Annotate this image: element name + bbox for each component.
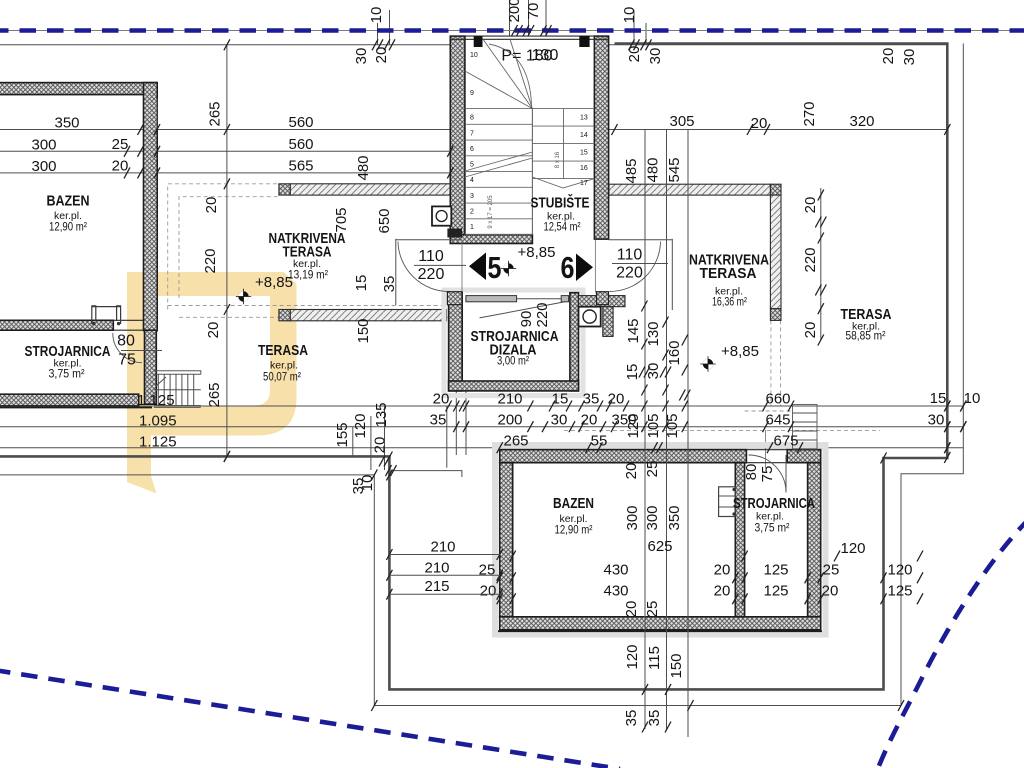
svg-text:25: 25 xyxy=(112,136,129,153)
svg-text:20: 20 xyxy=(623,601,640,618)
svg-text:1.125: 1.125 xyxy=(139,434,177,451)
svg-text:150: 150 xyxy=(355,318,372,343)
svg-text:350: 350 xyxy=(666,505,683,530)
svg-text:265: 265 xyxy=(206,382,223,407)
svg-text:125: 125 xyxy=(763,562,788,579)
svg-text:35: 35 xyxy=(583,391,600,408)
svg-text:3,75 m²: 3,75 m² xyxy=(755,521,790,535)
svg-text:75: 75 xyxy=(118,352,136,369)
svg-text:1.095: 1.095 xyxy=(139,413,177,430)
property boundary blue dashed bottom-left diagonal xyxy=(0,670,620,768)
bottom pool building xyxy=(495,445,826,635)
svg-text:210: 210 xyxy=(424,559,449,576)
svg-text:TERASA: TERASA xyxy=(258,343,308,359)
svg-text:155: 155 xyxy=(334,422,351,447)
svg-text:430: 430 xyxy=(603,583,628,600)
svg-text:BAZEN: BAZEN xyxy=(47,194,90,210)
svg-text:20: 20 xyxy=(205,322,222,339)
svg-text:16,36 m²: 16,36 m² xyxy=(712,295,747,309)
svg-text:6: 6 xyxy=(561,250,575,285)
svg-text:80: 80 xyxy=(743,464,760,481)
svg-text:30: 30 xyxy=(647,48,664,65)
dimension ticks xyxy=(138,124,144,135)
strojarnica door arc (left building) xyxy=(113,333,142,363)
svg-text:20: 20 xyxy=(372,437,389,454)
svg-text:13: 13 xyxy=(580,115,588,122)
svg-text:675: 675 xyxy=(773,433,798,450)
svg-text:9: 9 xyxy=(470,90,474,97)
svg-text:4: 4 xyxy=(470,177,474,184)
svg-text:35: 35 xyxy=(623,710,640,727)
svg-text:110: 110 xyxy=(617,247,643,264)
svg-text:220: 220 xyxy=(418,266,445,283)
svg-text:210: 210 xyxy=(497,391,522,408)
svg-text:215: 215 xyxy=(424,578,449,595)
dashed hidden edges: covered terrace left xyxy=(168,184,279,310)
svg-text:145: 145 xyxy=(625,318,642,343)
svg-text:15: 15 xyxy=(353,275,370,292)
stairwell walls xyxy=(450,36,465,239)
svg-text:3: 3 xyxy=(470,193,474,200)
svg-text:220: 220 xyxy=(616,265,643,282)
svg-text:+8,85: +8,85 xyxy=(255,274,293,291)
svg-text:50,07 m²: 50,07 m² xyxy=(263,370,301,384)
svg-text:13,19 m²: 13,19 m² xyxy=(288,268,328,282)
svg-text:30: 30 xyxy=(353,48,370,65)
svg-text:70: 70 xyxy=(525,3,542,20)
svg-text:200: 200 xyxy=(506,0,523,23)
svg-text:2: 2 xyxy=(470,209,474,216)
svg-text:20: 20 xyxy=(203,197,220,214)
svg-text:15: 15 xyxy=(624,364,641,381)
svg-text:16: 16 xyxy=(580,165,588,172)
svg-text:200: 200 xyxy=(497,412,522,429)
svg-text:105: 105 xyxy=(645,413,662,438)
svg-text:12,54 m²: 12,54 m² xyxy=(544,220,581,234)
svg-text:300: 300 xyxy=(31,137,56,154)
svg-text:15: 15 xyxy=(580,150,588,157)
exterior steps symbol right of 645 xyxy=(793,405,818,450)
benchmark symbols xyxy=(236,289,251,304)
svg-text:1.125: 1.125 xyxy=(137,392,175,409)
svg-text:6: 6 xyxy=(470,146,474,153)
svg-text:10: 10 xyxy=(964,390,981,407)
svg-text:1: 1 xyxy=(470,224,474,231)
svg-text:485: 485 xyxy=(623,158,640,183)
svg-text:20: 20 xyxy=(581,412,598,429)
svg-text:10: 10 xyxy=(470,52,478,59)
svg-text:650: 650 xyxy=(376,208,393,233)
svg-text:20: 20 xyxy=(822,583,839,600)
svg-text:120: 120 xyxy=(352,413,369,438)
svg-text:35: 35 xyxy=(430,412,447,429)
svg-text:300: 300 xyxy=(31,158,56,175)
svg-text:660: 660 xyxy=(765,391,790,408)
small stair left (strojarnica) xyxy=(154,371,201,408)
svg-text:20: 20 xyxy=(802,197,819,214)
svg-text:TERASA: TERASA xyxy=(700,266,757,282)
svg-text:10: 10 xyxy=(621,7,638,24)
svg-text:210: 210 xyxy=(430,539,455,556)
svg-text:20: 20 xyxy=(433,391,450,408)
svg-text:3,00 m²: 3,00 m² xyxy=(497,354,529,368)
svg-text:110: 110 xyxy=(418,248,444,265)
svg-text:+8,85: +8,85 xyxy=(721,343,759,360)
elevator machine room (strojarnica dizala) xyxy=(444,290,583,396)
svg-text:5: 5 xyxy=(488,250,502,285)
square column left of stairwell xyxy=(432,206,451,225)
svg-text:STUBIŠTE: STUBIŠTE xyxy=(531,194,590,212)
svg-text:25: 25 xyxy=(644,461,661,478)
dimension lines vertical xyxy=(226,45,228,456)
svg-text:160: 160 xyxy=(666,340,683,365)
svg-text:35: 35 xyxy=(381,276,398,293)
svg-text:265: 265 xyxy=(207,101,224,126)
svg-text:7: 7 xyxy=(470,131,474,138)
svg-text:120: 120 xyxy=(887,562,912,579)
svg-text:115: 115 xyxy=(646,646,663,670)
svg-text:645: 645 xyxy=(765,412,790,429)
svg-text:15: 15 xyxy=(552,391,569,408)
svg-text:305: 305 xyxy=(669,113,694,130)
svg-text:20: 20 xyxy=(714,583,731,600)
svg-text:55: 55 xyxy=(591,433,608,450)
dashed hidden edges: covered terrace right xyxy=(770,320,772,406)
svg-text:220: 220 xyxy=(202,248,219,273)
svg-text:220: 220 xyxy=(534,302,551,327)
svg-text:25: 25 xyxy=(479,562,496,579)
svg-text:265: 265 xyxy=(503,433,528,450)
svg-text:430: 430 xyxy=(603,562,628,579)
stairwell treads left flight xyxy=(465,39,595,234)
apartment markers xyxy=(469,253,486,281)
svg-text:150: 150 xyxy=(668,653,685,678)
svg-text:625: 625 xyxy=(647,538,672,555)
svg-text:35: 35 xyxy=(350,478,367,495)
svg-text:705: 705 xyxy=(333,207,350,232)
dimension lines horizontal xyxy=(0,44,947,46)
property boundary blue dashed top xyxy=(0,28,1024,33)
svg-text:5: 5 xyxy=(470,162,474,169)
svg-text:130: 130 xyxy=(645,321,662,346)
svg-text:8 x 16: 8 x 16 xyxy=(555,151,561,168)
svg-text:480: 480 xyxy=(645,157,662,182)
svg-text:25: 25 xyxy=(644,601,661,618)
covered terrace walls (thin, diagonal hatch) xyxy=(290,184,450,195)
thin boundary line under blue dashes xyxy=(0,30,1024,32)
svg-text:565: 565 xyxy=(288,158,313,175)
svg-text:135: 135 xyxy=(373,402,390,427)
svg-text:9 x 17 = 205: 9 x 17 = 205 xyxy=(488,195,494,229)
svg-text:545: 545 xyxy=(666,157,683,182)
svg-text:300: 300 xyxy=(624,505,641,530)
svg-text:75: 75 xyxy=(759,466,776,483)
svg-text:35: 35 xyxy=(646,710,663,727)
svg-text:BAZEN: BAZEN xyxy=(553,496,594,512)
svg-text:350: 350 xyxy=(54,115,79,132)
svg-text:20: 20 xyxy=(112,158,129,175)
pool ladder top-left pool xyxy=(92,306,121,324)
svg-text:20: 20 xyxy=(802,322,819,339)
svg-text:14: 14 xyxy=(580,132,588,139)
dimension columns over pool xyxy=(644,130,646,730)
svg-text:58,85 m²: 58,85 m² xyxy=(846,329,886,343)
svg-text:20: 20 xyxy=(623,463,640,480)
svg-text:3,75 m²: 3,75 m² xyxy=(49,367,85,381)
svg-text:30: 30 xyxy=(928,412,945,429)
lower terrace slab outline thick xyxy=(0,44,947,690)
svg-text:30: 30 xyxy=(551,412,568,429)
svg-text:20: 20 xyxy=(714,562,731,579)
svg-text:120: 120 xyxy=(840,540,865,557)
svg-text:20: 20 xyxy=(480,583,497,600)
svg-text:120: 120 xyxy=(625,413,642,438)
svg-text:30: 30 xyxy=(901,49,918,66)
svg-text:125: 125 xyxy=(763,583,788,600)
property boundary blue dashed bottom-right curve xyxy=(877,518,1024,768)
svg-text:15: 15 xyxy=(930,390,947,407)
svg-text:10: 10 xyxy=(368,7,385,24)
svg-text:120: 120 xyxy=(624,644,641,669)
svg-text:20: 20 xyxy=(373,47,390,64)
svg-text:8: 8 xyxy=(470,115,474,122)
svg-text:20: 20 xyxy=(751,115,768,132)
svg-text:90: 90 xyxy=(518,311,535,328)
svg-text:130: 130 xyxy=(532,47,559,64)
stairwell corner columns xyxy=(474,36,483,47)
upper-left pool building walls xyxy=(0,83,157,95)
svg-text:+8,85: +8,85 xyxy=(518,244,556,261)
watermark logo xyxy=(127,272,297,494)
svg-text:17: 17 xyxy=(580,180,588,187)
svg-text:480: 480 xyxy=(355,155,372,180)
svg-text:12,90 m²: 12,90 m² xyxy=(555,523,593,537)
svg-text:270: 270 xyxy=(801,101,818,126)
svg-text:20: 20 xyxy=(880,48,897,65)
svg-text:80: 80 xyxy=(117,333,135,350)
svg-text:12,90 m²: 12,90 m² xyxy=(49,220,87,234)
stairwell doors xyxy=(395,239,397,305)
svg-text:125: 125 xyxy=(887,583,912,600)
svg-text:300: 300 xyxy=(644,505,661,530)
svg-text:220: 220 xyxy=(802,247,819,272)
svg-text:560: 560 xyxy=(288,136,313,153)
svg-text:25: 25 xyxy=(823,562,840,579)
svg-text:560: 560 xyxy=(288,114,313,131)
svg-text:320: 320 xyxy=(849,113,874,130)
